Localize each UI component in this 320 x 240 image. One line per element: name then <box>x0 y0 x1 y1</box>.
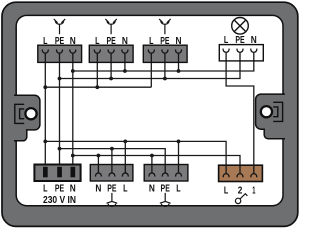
svg-text:PE: PE <box>107 184 117 195</box>
connector X3 body <box>143 45 187 62</box>
svg-text:PE: PE <box>55 36 65 47</box>
connector X3 contact L <box>148 49 154 62</box>
junction X5 L bottom <box>177 140 181 144</box>
junction X4 L bottom <box>123 140 127 144</box>
junction L2 bus <box>95 85 99 89</box>
lamp connector X6 body <box>219 45 263 61</box>
wire N drop connector X5 <box>151 156 153 174</box>
wire switched line lamp L to switch terminal 1 <box>226 61 254 173</box>
wire top PE bus to lamp connector PE <box>60 61 241 79</box>
svg-text:PE: PE <box>160 36 170 47</box>
junction input N bottom <box>71 154 75 158</box>
svg-text:L: L <box>224 186 228 197</box>
junction X5 N bottom <box>150 154 154 158</box>
switch connector contact 2 <box>237 165 243 178</box>
mounting tab right <box>256 94 285 139</box>
junction L1 bus <box>43 85 47 89</box>
lamp connector contact L <box>223 49 229 62</box>
wire L1 vertical from connector X1 L to input L <box>44 62 46 166</box>
labels connector X4 <box>95 184 127 195</box>
svg-text:PE: PE <box>106 36 116 47</box>
wire N drop connector X4 <box>97 156 99 174</box>
connector X4 body <box>90 165 133 182</box>
switch connector contact L <box>223 165 229 178</box>
wire PE1 vertical from connector X1 PE to input PE <box>59 62 61 166</box>
junction PE1 bus <box>58 77 62 81</box>
junction X4 N bottom <box>97 154 101 158</box>
enclosure inner opening <box>16 15 283 205</box>
outgoing symbol above X2 <box>106 19 117 34</box>
wire L drop connector X4 <box>124 141 126 173</box>
wire bottom N bus to switch terminal 2 <box>73 156 240 174</box>
svg-text:N: N <box>95 184 101 195</box>
connector X2 contact PE <box>108 49 114 62</box>
outgoing symbol below X5 <box>160 193 170 207</box>
outgoing symbol above X1 <box>54 19 65 34</box>
connector X5 body <box>144 165 188 182</box>
junction input PE bottom <box>58 147 62 151</box>
wire bottom PE bus <box>60 149 166 173</box>
input pin N <box>71 167 76 178</box>
junction N3 bus <box>177 69 181 73</box>
svg-text:N: N <box>149 184 155 195</box>
svg-text:PE: PE <box>235 35 245 46</box>
labels connector X5 <box>149 184 181 195</box>
connector X1 contact L <box>42 49 48 62</box>
junction PE3 bus <box>163 77 167 81</box>
wire bottom L bus to switch terminal L <box>45 141 226 173</box>
wire PE2 drop <box>110 62 112 78</box>
svg-text:L: L <box>95 36 99 47</box>
svg-text:L: L <box>176 184 180 195</box>
connector X4 contact N <box>96 164 102 177</box>
junction PE2 bus <box>109 77 113 81</box>
connector X1 contact N <box>70 49 76 62</box>
connector X3 contact PE <box>162 49 168 62</box>
connector X1 body <box>38 45 82 62</box>
connector X2 contact L <box>94 49 100 62</box>
lamp symbol E1 <box>232 18 249 35</box>
svg-text:L: L <box>43 36 47 47</box>
svg-text:L: L <box>149 36 153 47</box>
junction input L bottom <box>43 140 47 144</box>
svg-text:L: L <box>43 184 47 195</box>
connector X5 contact N <box>149 164 155 177</box>
switch connector contact 1 <box>251 165 257 178</box>
connector X1 contact PE <box>57 49 63 62</box>
svg-text:1: 1 <box>252 186 256 197</box>
switch connector X7 body <box>219 165 263 181</box>
svg-text:N: N <box>176 36 182 47</box>
connector X5 contact PE <box>162 164 168 177</box>
wire PE3 drop <box>164 62 166 78</box>
lamp connector contact PE <box>237 49 243 62</box>
junction X4 PE bottom <box>110 147 114 151</box>
input pin PE <box>57 167 62 178</box>
lamp connector contact N <box>251 49 257 62</box>
labels switch connector X7 <box>224 186 256 197</box>
connector X2 contact N <box>122 49 128 62</box>
input connector 230V body <box>34 165 80 182</box>
svg-text:N: N <box>122 36 128 47</box>
outgoing symbol above X3 <box>160 19 171 34</box>
mounting tab left <box>14 95 40 141</box>
labels input connector <box>43 184 76 195</box>
labels lamp connector X6 <box>224 35 257 46</box>
svg-text:N: N <box>70 36 76 47</box>
svg-text:L: L <box>123 184 127 195</box>
wire L3 drop to L bus end <box>150 62 152 87</box>
wire N2 drop <box>124 62 126 71</box>
svg-text:PE: PE <box>55 184 65 195</box>
labels connector X2 <box>95 36 128 47</box>
switch symbol S1 <box>235 194 247 204</box>
svg-text:2: 2 <box>238 186 243 197</box>
connector X2 body <box>89 45 133 62</box>
wire L2 drop <box>96 62 98 87</box>
wire top L bus <box>45 86 151 88</box>
outgoing symbol below X4 <box>107 193 117 207</box>
svg-text:L: L <box>224 35 228 46</box>
svg-text:N: N <box>70 184 76 195</box>
wire top N bus to lamp connector N <box>73 61 254 71</box>
connector X5 contact L <box>176 164 182 177</box>
junction N1 bus <box>71 69 75 73</box>
labels connector X1 <box>43 36 76 47</box>
input pin L <box>43 167 48 178</box>
svg-text:N: N <box>251 35 257 46</box>
connector X3 contact N <box>176 49 182 62</box>
connector X4 contact L <box>122 164 128 177</box>
wire PE drop connector X4 <box>111 149 113 173</box>
junction N2 bus <box>123 69 127 73</box>
wire L drop connector X5 <box>178 141 180 173</box>
connector X4 contact PE <box>109 164 115 177</box>
wire N1 vertical from connector X1 N to input N <box>72 62 74 166</box>
svg-text:230 V IN: 230 V IN <box>43 195 76 206</box>
wire N3 drop <box>178 62 180 71</box>
labels connector X3 <box>149 36 181 47</box>
svg-text:PE: PE <box>161 184 171 195</box>
